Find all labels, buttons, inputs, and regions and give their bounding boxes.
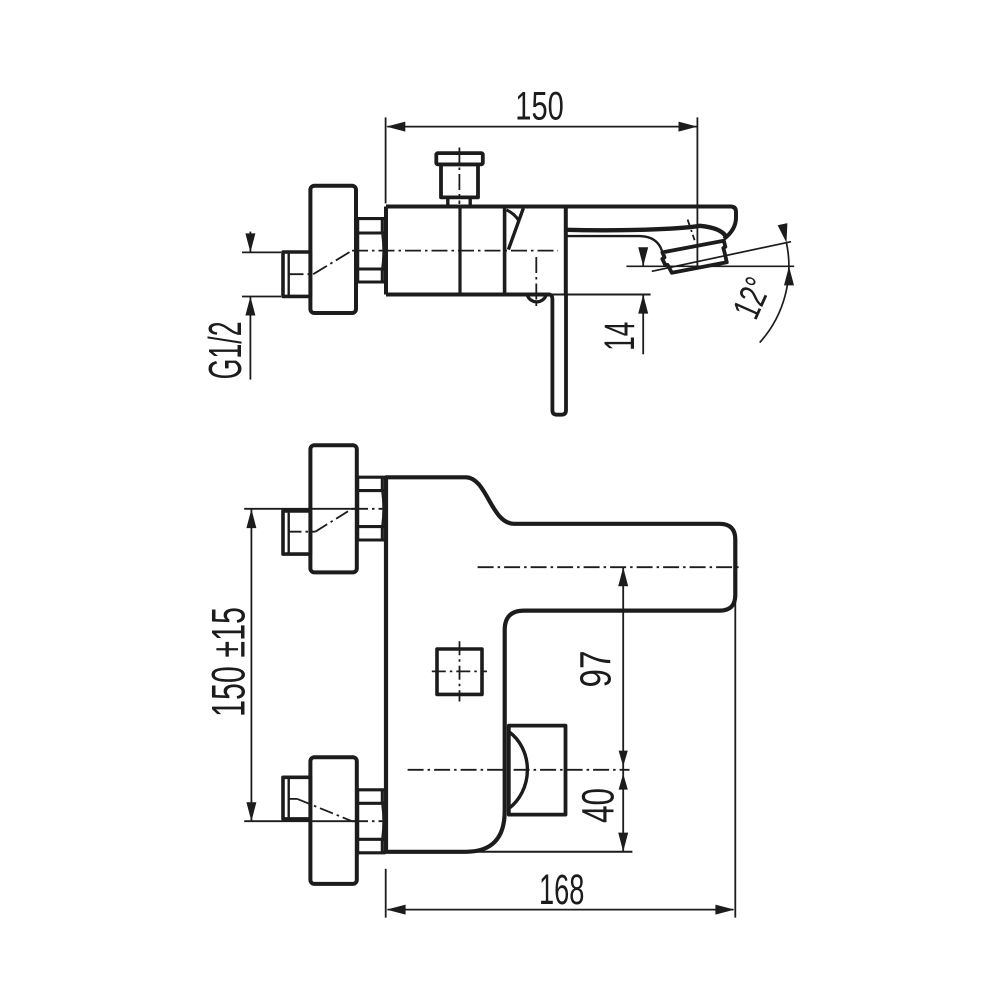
svg-text:150 ±15: 150 ±15 — [202, 607, 255, 717]
svg-text:97: 97 — [572, 651, 621, 688]
svg-text:168: 168 — [539, 866, 584, 914]
svg-text:G1/2: G1/2 — [199, 321, 251, 379]
svg-text:150: 150 — [515, 85, 564, 129]
svg-text:40: 40 — [573, 788, 624, 823]
svg-text:14: 14 — [596, 322, 644, 351]
